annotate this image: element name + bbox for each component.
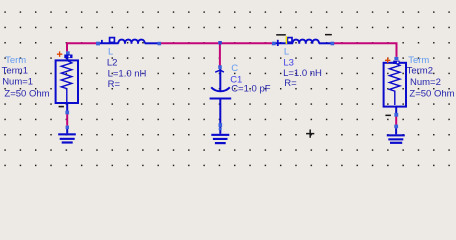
pin square Term2 pin1 bbox=[394, 57, 398, 60]
wire L3 pin2 to Term2 pin1 bbox=[334, 43, 397, 57]
pin square L2 pin1 bbox=[96, 42, 100, 46]
svg-text:Term1: Term1 bbox=[2, 65, 28, 76]
term Term1 bbox=[56, 60, 78, 111]
plus polarity mark Term2 bbox=[385, 58, 390, 64]
svg-text:Term2: Term2 bbox=[407, 66, 433, 77]
svg-text:L=1.0 nH: L=1.0 nH bbox=[108, 68, 147, 79]
wire Term2 pin2 to ground GND3 bbox=[395, 116, 397, 124]
label Term2 Num=2 bbox=[410, 77, 441, 88]
label L3 instance name bbox=[283, 58, 294, 69]
svg-text:C=1.0 pF: C=1.0 pF bbox=[231, 83, 271, 94]
selection marker dash right above L3 bbox=[325, 34, 332, 36]
junction node N2 bbox=[218, 41, 222, 45]
label L3 R= bbox=[284, 78, 297, 89]
wire L2 pin2 to junction node N2 bbox=[161, 42, 219, 44]
pin square L3 pin2 bbox=[331, 42, 335, 46]
ground GND3 bbox=[387, 125, 405, 144]
svg-text:R=: R= bbox=[108, 79, 121, 90]
pin square L3 pin1 bbox=[272, 42, 276, 46]
minus polarity mark Term1 bbox=[59, 106, 64, 108]
plus polarity mark Term1 bbox=[57, 51, 62, 57]
svg-text:C: C bbox=[231, 63, 238, 74]
pin square C1 pin2 bbox=[219, 123, 223, 130]
pin square L2 pin2 bbox=[158, 42, 162, 46]
label Term1 instance name bbox=[2, 65, 28, 76]
inductor L3 bbox=[276, 38, 331, 46]
selection highlight yellow at L3 pin1 bbox=[286, 36, 288, 44]
label L2 instance name bbox=[107, 58, 118, 69]
ground GND1 bbox=[58, 126, 76, 144]
label Term1 component type bbox=[5, 55, 26, 66]
pin square Term1 pin1 bbox=[66, 51, 70, 54]
wire Term1 pin1 to L2 pin1 bbox=[67, 43, 96, 51]
label C1 component type bbox=[231, 63, 238, 74]
label L3 L=1.0 nH bbox=[283, 68, 322, 79]
pin square Term2 pin2 bbox=[394, 113, 398, 117]
minus polarity mark Term2 bbox=[385, 115, 391, 117]
inductor L2 bbox=[96, 38, 157, 44]
label Term2 instance name bbox=[407, 66, 433, 77]
wire junction N2 down to C1 pin1 bbox=[219, 44, 221, 65]
cursor crosshair bbox=[306, 130, 314, 138]
selection marker dash left above L3 bbox=[276, 34, 286, 36]
svg-text:L2: L2 bbox=[107, 58, 118, 69]
label L2 component type bbox=[108, 47, 113, 58]
svg-text:L: L bbox=[284, 47, 289, 58]
label L2 R= bbox=[108, 79, 121, 90]
label L2 L=1.0 nH bbox=[108, 68, 147, 79]
svg-text:R=: R= bbox=[284, 78, 297, 89]
pin 1 marker Term1 bbox=[64, 55, 72, 62]
label C1 instance name bbox=[230, 74, 242, 85]
ground GND2 bbox=[211, 134, 229, 144]
pin 1 marker Term2 bbox=[393, 61, 399, 64]
svg-text:Num=1: Num=1 bbox=[2, 77, 33, 88]
svg-text:Term: Term bbox=[5, 55, 26, 66]
capacitor C1 bbox=[210, 69, 232, 134]
svg-text:Z=50 Ohm: Z=50 Ohm bbox=[4, 89, 49, 100]
svg-text:L: L bbox=[108, 47, 113, 58]
pin square Term1 pin2 bbox=[65, 111, 69, 115]
label Term2 component type bbox=[408, 55, 429, 66]
label Term2 Z=50 Ohm bbox=[409, 89, 454, 100]
svg-text:Num=2: Num=2 bbox=[410, 77, 441, 88]
wire Term1 pin2 to ground GND1 bbox=[66, 114, 68, 126]
svg-text:Term: Term bbox=[408, 55, 429, 66]
label Term1 Z=50 Ohm bbox=[4, 89, 49, 100]
term Term2 bbox=[384, 63, 406, 113]
label Term1 Num=1 bbox=[2, 77, 33, 88]
svg-text:Z=50 Ohm: Z=50 Ohm bbox=[409, 89, 454, 100]
label C1 C=1.0 pF bbox=[231, 83, 271, 94]
pin square C1 pin1 bbox=[218, 65, 222, 69]
svg-text:L3: L3 bbox=[283, 58, 294, 69]
wire junction N2 to L3 pin1 bbox=[221, 42, 272, 44]
label L3 component type bbox=[284, 47, 289, 58]
